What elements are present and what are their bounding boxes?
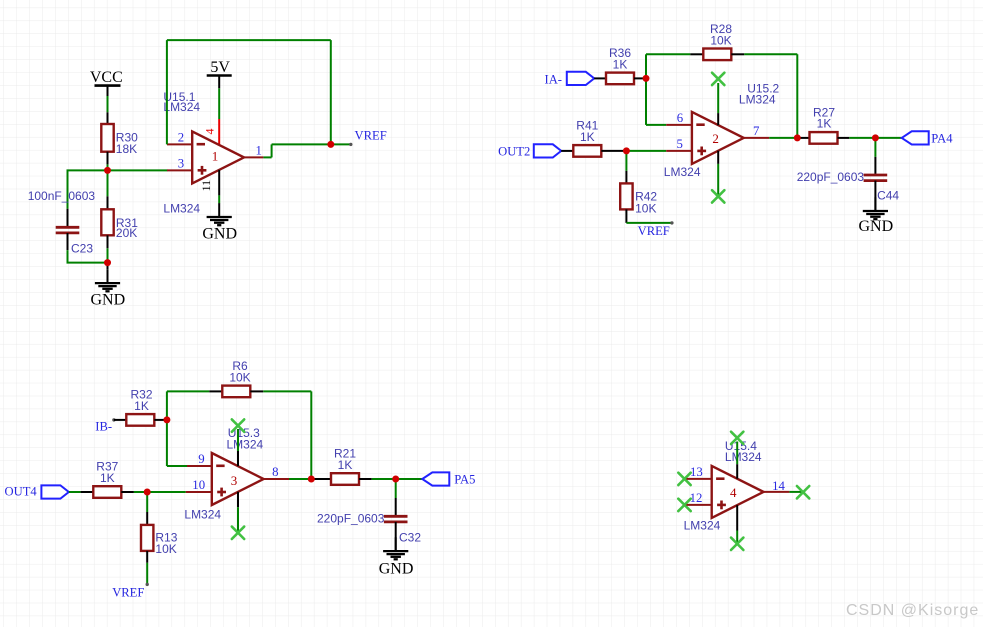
svg-text:C44: C44: [877, 188, 899, 202]
svg-text:OUT2: OUT2: [498, 144, 530, 158]
op-amp U15.4 pin 14 output: [764, 479, 790, 493]
wire pin8 to node I: [289, 478, 311, 480]
wire node G to R6: [167, 391, 209, 420]
wire R21 to node K: [372, 478, 396, 480]
svg-text:GND: GND: [379, 561, 414, 578]
wire R37 to node H: [134, 491, 147, 493]
op-amp U15.3 plus: [217, 488, 226, 497]
svg-text:10K: 10K: [710, 33, 731, 47]
svg-text:C23: C23: [71, 241, 93, 255]
port PA5: [422, 472, 449, 485]
label R27 1K: [813, 105, 835, 130]
svg-text:100nF_0603: 100nF_0603: [28, 189, 96, 203]
op-amp U15.3: [212, 453, 264, 505]
resistor R32: [114, 414, 167, 426]
resistor R36: [606, 73, 646, 85]
svg-text:PA5: PA5: [454, 473, 475, 487]
net label VREF U15.2: [638, 221, 674, 238]
svg-text:220pF_0603: 220pF_0603: [317, 511, 385, 525]
label R6 10K: [229, 359, 250, 384]
label R31 20K: [116, 216, 138, 240]
wire node H to R13: [146, 492, 148, 512]
svg-text:2: 2: [178, 131, 184, 145]
svg-text:PA4: PA4: [931, 132, 953, 146]
svg-text:18K: 18K: [116, 142, 137, 156]
op-amp U15.1 pin 11: [199, 170, 219, 196]
svg-text:20K: 20K: [116, 226, 137, 240]
svg-text:LM324: LM324: [184, 508, 221, 522]
node B junction: [104, 259, 111, 266]
op-amp U15.2 power pin down: [717, 151, 719, 197]
op-amp U15.2 minus: [696, 123, 704, 126]
label R21 1K: [334, 447, 356, 472]
op-amp U15.4: [712, 466, 764, 518]
svg-text:10K: 10K: [635, 201, 656, 215]
label R13 10K: [155, 530, 177, 556]
ground GND C44: [858, 197, 893, 235]
wire IA- to R36: [594, 77, 606, 79]
svg-text:IB-: IB-: [95, 419, 112, 433]
svg-text:10K: 10K: [155, 542, 176, 556]
wire R31 to node B: [107, 248, 109, 262]
wire pin11 to GND: [218, 195, 220, 203]
net label VREF out1: [349, 129, 387, 146]
power flag VCC: [90, 69, 123, 96]
svg-text:CSDN @Kisorge: CSDN @Kisorge: [846, 602, 979, 619]
svg-text:10: 10: [192, 478, 205, 492]
no-connect X U15.2 top: [712, 73, 724, 85]
svg-text:12: 12: [690, 491, 703, 505]
label R41 1K: [576, 119, 598, 144]
op-amp U15.2: [692, 112, 744, 164]
node E junction: [794, 134, 801, 141]
wire pin7 to node E: [769, 137, 797, 139]
net label PA4: [931, 132, 953, 146]
net label OUT2: [498, 144, 530, 158]
op-amp U15.1 minus: [197, 143, 205, 146]
power flag 5V: [207, 59, 232, 88]
svg-text:1: 1: [212, 149, 219, 164]
wire pin14 to X: [789, 491, 803, 493]
no-connect X pin13: [678, 473, 690, 485]
wire node K to PA5: [396, 478, 423, 480]
svg-text:220pF_0603: 220pF_0603: [797, 170, 865, 184]
label C23: [71, 241, 93, 255]
svg-text:LM324: LM324: [227, 438, 264, 452]
op-amp U15.4 pin 13: [687, 465, 712, 479]
node G junction: [163, 416, 170, 423]
resistor R30: [101, 112, 113, 164]
svg-text:1K: 1K: [613, 57, 628, 71]
node F junction: [872, 134, 879, 141]
svg-text:11: 11: [199, 180, 213, 192]
op-amp U15.2 pin 6: [666, 111, 692, 125]
wire node F to C44: [874, 138, 876, 157]
wire R28 to output node: [744, 54, 797, 138]
wire node D to pin5: [626, 150, 666, 152]
label R36 1K: [609, 46, 631, 71]
wire R27 to node F: [849, 137, 875, 139]
unit number 4: [730, 485, 737, 500]
op-amp U15.2 pin 5: [666, 137, 692, 151]
svg-text:VREF: VREF: [112, 586, 144, 600]
resistor R13: [141, 512, 153, 563]
port OUT2: [534, 144, 561, 157]
svg-text:13: 13: [690, 465, 703, 479]
svg-text:LM324: LM324: [725, 450, 762, 464]
wire C23 to node B: [67, 250, 108, 262]
net label IB-: [95, 418, 115, 433]
unit number 3: [231, 473, 238, 488]
resistor R42: [620, 171, 632, 223]
svg-text:5: 5: [676, 137, 682, 151]
op-amp U15.4 minus: [716, 477, 724, 480]
op-amp U15.1 pin 1 output: [244, 144, 263, 158]
label 220pF_0603 C32: [317, 511, 385, 525]
wire VCC to R30: [107, 96, 109, 112]
wire node G to pin9: [167, 420, 187, 466]
wire node C to R28: [646, 54, 690, 78]
op-amp U15.4 plus: [717, 501, 726, 510]
op-amp U15.1 plus: [198, 166, 207, 175]
net label VREF U15.3: [112, 583, 149, 600]
svg-text:LM324: LM324: [684, 519, 721, 533]
label U15.4: [725, 439, 762, 464]
wire R30 to node A: [107, 164, 109, 170]
label R32 1K: [130, 388, 152, 413]
label C32: [399, 530, 421, 544]
node VREF junction: [327, 141, 334, 148]
op-amp U15.2 power pin up: [717, 83, 719, 125]
label R37 1K: [96, 460, 118, 485]
no-connect X U15.3 bottom: [232, 527, 244, 539]
watermark CSDN @Kisorge: [846, 602, 979, 619]
label U15.1: [163, 90, 200, 114]
svg-text:9: 9: [198, 452, 204, 466]
svg-text:LM324: LM324: [163, 100, 200, 114]
resistor R6: [209, 386, 263, 398]
label 100nF_0603: [28, 189, 96, 203]
wire pin1 to VREF node: [263, 144, 350, 157]
ground GND U15.1: [202, 203, 237, 242]
op-amp U15.3 power pin up: [237, 429, 239, 466]
resistor R28: [690, 49, 744, 61]
node I junction: [308, 476, 315, 483]
op-amp U15.3 pin 8 output: [264, 465, 289, 479]
label C44: [877, 188, 899, 202]
label R30 18K: [116, 130, 138, 156]
label LM324 U15.1: [163, 201, 200, 215]
wire 5V to pin4: [218, 88, 220, 119]
svg-text:1K: 1K: [134, 399, 149, 413]
wire node A to C23: [67, 170, 108, 208]
wire node A to R31: [107, 170, 109, 196]
svg-text:1: 1: [255, 144, 261, 158]
svg-text:1K: 1K: [100, 471, 115, 485]
resistor R27: [797, 132, 849, 144]
svg-text:2: 2: [712, 131, 719, 146]
wire node A to pin3: [108, 169, 168, 171]
resistor R31: [101, 196, 113, 248]
svg-text:3: 3: [178, 157, 184, 171]
svg-text:8: 8: [272, 465, 278, 479]
net label OUT4: [5, 485, 38, 499]
svg-text:OUT4: OUT4: [5, 485, 38, 499]
svg-text:6: 6: [677, 111, 684, 125]
unit number 1: [212, 149, 219, 164]
svg-text:3: 3: [231, 473, 238, 488]
no-connect X U15.4 bottom: [731, 538, 743, 550]
resistor R21: [311, 473, 371, 485]
svg-text:IA-: IA-: [545, 72, 562, 86]
node A junction: [104, 167, 111, 174]
capacitor C23: [56, 209, 80, 251]
capacitor C44: [864, 157, 888, 211]
svg-text:7: 7: [753, 124, 760, 138]
op-amp U15.3 pin 10: [186, 478, 212, 492]
op-amp U15.2 pin 7 output: [744, 124, 770, 138]
wire R6 to output node: [263, 391, 311, 479]
op-amp U15.4 power pin down: [736, 505, 738, 544]
svg-text:10K: 10K: [229, 370, 250, 384]
op-amp U15.1 pin 2: [167, 131, 192, 145]
resistor R41: [573, 145, 626, 157]
no-connect X pin14: [797, 486, 809, 498]
ground GND node B: [90, 263, 125, 309]
node C junction: [643, 75, 650, 82]
port OUT4: [41, 485, 68, 498]
capacitor C32: [384, 498, 408, 552]
wire OUT4 to R37: [69, 491, 81, 493]
wire node D to R42: [625, 151, 627, 171]
no-connect X U15.2 bottom: [712, 190, 724, 202]
label LM324 U15.3: [184, 508, 221, 522]
wire node C to pin6: [646, 78, 666, 125]
svg-text:4: 4: [202, 129, 216, 135]
svg-text:VCC: VCC: [90, 69, 123, 86]
svg-text:LM324: LM324: [163, 201, 200, 215]
svg-text:GND: GND: [202, 225, 237, 242]
svg-text:VREF: VREF: [355, 129, 387, 143]
op-amp U15.1 pin 4: [202, 119, 219, 145]
feedback wire U15.1: [167, 40, 331, 144]
no-connect X U15.4 top: [731, 432, 743, 444]
resistor R37: [81, 486, 134, 498]
svg-text:1K: 1K: [338, 458, 353, 472]
label 220pF_0603 C44: [797, 170, 865, 184]
wire OUT2 to R41: [561, 150, 573, 152]
svg-text:5V: 5V: [210, 59, 230, 76]
label R42 10K: [635, 190, 657, 216]
svg-text:VREF: VREF: [638, 224, 670, 238]
label R28 10K: [710, 22, 732, 47]
op-amp U15.1 pin 3: [167, 157, 192, 171]
wire R13 to VREF: [146, 563, 148, 585]
net label IA-: [545, 72, 562, 86]
svg-text:GND: GND: [858, 218, 893, 235]
svg-text:4: 4: [730, 485, 737, 500]
wire node F to PA4: [875, 137, 901, 139]
op-amp U15.3 pin 9: [187, 452, 212, 466]
label U15.3: [227, 426, 264, 452]
wire node H to pin10: [147, 491, 186, 493]
node D junction: [623, 147, 630, 154]
op-amp U15.4 pin 12: [687, 491, 712, 505]
op-amp U15.3 minus: [216, 464, 224, 467]
node H junction: [144, 489, 151, 496]
svg-text:LM324: LM324: [664, 165, 701, 179]
wire R42 to VREF: [626, 222, 672, 224]
unit number 2: [712, 131, 719, 146]
net label PA5: [454, 473, 475, 487]
svg-text:GND: GND: [90, 292, 125, 309]
node K junction: [392, 476, 399, 483]
label U15.2: [739, 82, 780, 107]
label LM324 U15.4: [684, 519, 721, 533]
svg-text:1K: 1K: [580, 130, 595, 144]
wire node K to C32: [395, 479, 397, 498]
svg-text:LM324: LM324: [739, 93, 776, 107]
port IA-: [567, 72, 594, 85]
op-amp U15.4 power pin up: [736, 442, 738, 479]
op-amp U15.2 plus: [697, 147, 706, 156]
svg-text:14: 14: [772, 479, 785, 493]
op-amp U15.3 power pin down: [237, 492, 239, 533]
svg-text:C32: C32: [399, 530, 421, 544]
port PA4: [902, 131, 929, 144]
no-connect X U15.3 top: [232, 419, 244, 431]
label LM324 U15.2: [664, 165, 701, 179]
op-amp U15.1: [192, 131, 244, 183]
ground GND C32: [379, 537, 414, 577]
svg-text:1K: 1K: [817, 117, 832, 131]
no-connect X pin12: [678, 499, 690, 511]
